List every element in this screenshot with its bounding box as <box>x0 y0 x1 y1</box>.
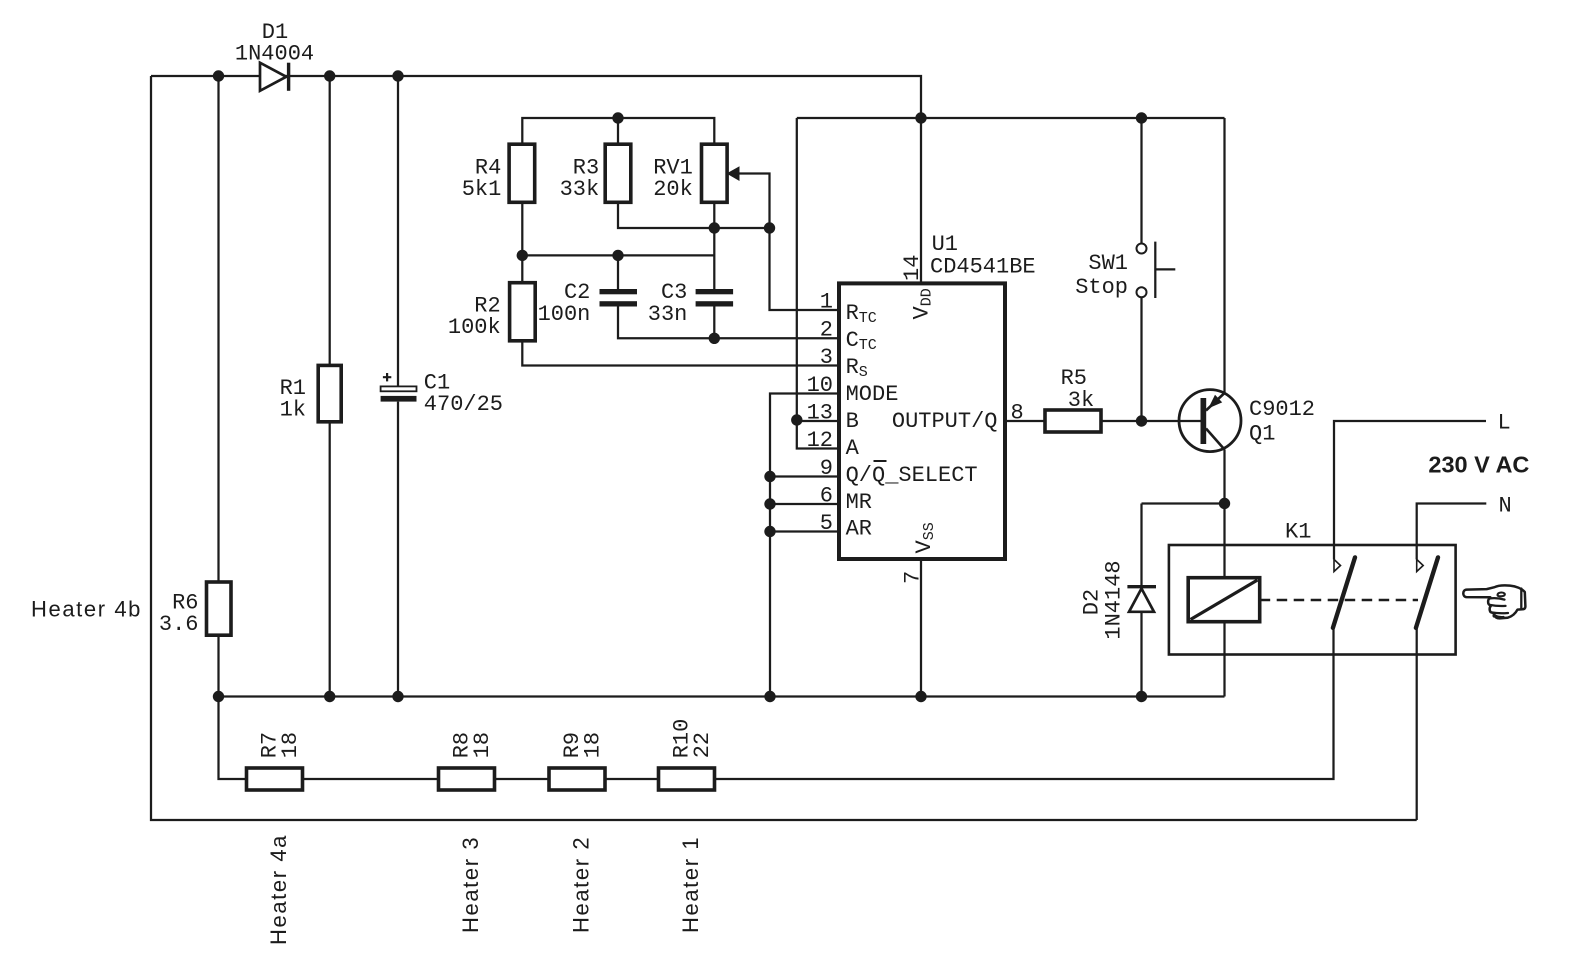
svg-text:Heater 3: Heater 3 <box>458 836 483 933</box>
wire outer left and bottom rail <box>151 76 1417 820</box>
svg-text:18: 18 <box>581 732 606 758</box>
wire R4 R3 RV1 top bus <box>522 118 714 144</box>
svg-text:14: 14 <box>900 255 925 281</box>
svg-text:B: B <box>846 409 859 434</box>
svg-text:3.6: 3.6 <box>159 612 199 637</box>
wire R4 bottom to R2 top <box>521 202 523 282</box>
node pins 9 6 5 junctions <box>764 471 775 482</box>
svg-text:U1: U1 <box>932 232 958 257</box>
node oscillator RC junctions <box>709 222 720 233</box>
svg-text:1N4004: 1N4004 <box>235 41 314 66</box>
svg-text:1k: 1k <box>280 398 306 423</box>
svg-text:6: 6 <box>820 484 833 509</box>
svg-text:230 V AC: 230 V AC <box>1428 452 1529 478</box>
svg-text:3: 3 <box>820 345 833 370</box>
capacitor C1 470/25 electrolytic <box>381 371 503 417</box>
wire contact 2 lower <box>1416 628 1418 820</box>
svg-text:OUTPUT/Q: OUTPUT/Q <box>892 409 998 434</box>
svg-text:3k: 3k <box>1068 388 1094 413</box>
resistor R5 3k <box>1045 366 1101 432</box>
wire R2 bottom to pin 3 RS <box>522 341 839 366</box>
resistor R1 1k <box>280 365 342 422</box>
svg-text:AR: AR <box>846 517 872 542</box>
wire D2 vertical <box>1140 504 1142 697</box>
capacitor C2 100n <box>538 280 637 327</box>
wire Q1 emitter vertical <box>1223 118 1225 393</box>
svg-text:A: A <box>846 436 860 461</box>
resistor R8 18 <box>439 732 496 790</box>
resistor R4 5k1 <box>462 144 535 202</box>
svg-text:MODE: MODE <box>846 382 899 407</box>
svg-text:33k: 33k <box>560 177 600 202</box>
node ground bus junctions <box>213 691 224 702</box>
resistor R3 33k <box>560 144 631 202</box>
wire pin 7 VSS down <box>920 559 922 697</box>
diode D2 1N4148 <box>1080 560 1157 639</box>
svg-text:10: 10 <box>807 373 833 398</box>
node pin13 B junction <box>791 414 802 425</box>
wire R6 bottom to bus and down to R7 <box>219 635 247 779</box>
node base junction <box>1136 415 1147 426</box>
node collector D2 junction <box>1219 498 1230 509</box>
wire N terminal to contact 2 <box>1417 504 1487 560</box>
wire SW1 top branch <box>1140 118 1142 244</box>
wire MODE pin 9 6 5 ground chain <box>770 394 839 697</box>
svg-text:470/25: 470/25 <box>424 392 503 417</box>
wire RV1 wiper to pin 1 RTC <box>727 174 840 311</box>
wire R5 to base junction to Q1 base <box>1101 420 1201 422</box>
svg-text:5k1: 5k1 <box>462 177 502 202</box>
pointing hand icon <box>1463 585 1525 618</box>
wire Q1 collector down through coil to ground bus <box>1223 450 1225 697</box>
svg-text:Heater 4b: Heater 4b <box>31 596 142 621</box>
svg-text:Q1: Q1 <box>1249 422 1275 447</box>
capacitor C3 33n <box>648 280 733 327</box>
IC U1 CD4541BE body <box>839 232 1036 559</box>
resistor R10 22 <box>659 719 716 790</box>
svg-text:9: 9 <box>820 456 833 481</box>
svg-text:100n: 100n <box>538 302 591 327</box>
resistor R2 100k <box>448 283 535 341</box>
relay actuation dashed link <box>1260 599 1418 602</box>
svg-text:2: 2 <box>820 318 833 343</box>
relay coil <box>1188 578 1260 622</box>
svg-text:Heater 1: Heater 1 <box>678 836 703 933</box>
relay contact 2 <box>1416 557 1438 628</box>
svg-text:100k: 100k <box>448 315 501 340</box>
node top rail junctions <box>213 70 224 81</box>
IC pin numbers <box>807 255 1024 584</box>
svg-text:C9012: C9012 <box>1249 397 1315 422</box>
wire L terminal to contact 1 <box>1334 421 1486 559</box>
relay contact 1 <box>1333 557 1355 628</box>
resistor R7 18 <box>247 732 304 790</box>
potentiometer RV1 20k <box>653 144 739 202</box>
svg-text:12: 12 <box>807 428 833 453</box>
svg-text:20k: 20k <box>653 177 693 202</box>
wire ground bottom bus y=696.5 <box>219 695 1225 697</box>
wire top supply rail <box>151 76 921 283</box>
wire SW1 bottom to base junction <box>1140 297 1142 421</box>
wire pin 8 output to R5 <box>1005 420 1045 422</box>
wire C2 C3 top bus <box>522 255 714 289</box>
wire C2 C3 bottom bus to pin 2 CTC <box>618 307 839 339</box>
transistor Q1 C9012 <box>1179 390 1315 452</box>
resistor R9 18 <box>549 732 606 790</box>
wire VDD right bus y=118 <box>797 117 1225 119</box>
svg-text:Heater 4a: Heater 4a <box>266 834 291 945</box>
wire heater chain segments <box>303 778 659 780</box>
diode D1 1N4004 <box>235 20 314 91</box>
svg-text:K1: K1 <box>1285 520 1311 545</box>
svg-text:22: 22 <box>690 732 715 758</box>
wire R1 branch <box>329 76 331 697</box>
IC pin labels inside <box>846 288 998 553</box>
svg-text:8: 8 <box>1011 401 1024 426</box>
svg-text:CD4541BE: CD4541BE <box>930 255 1036 280</box>
wire contact 1 lower to heater chain <box>715 628 1334 779</box>
svg-text:SW1: SW1 <box>1088 251 1128 276</box>
node VDD bus junctions <box>612 112 623 123</box>
svg-text:Q/Q_SELECT: Q/Q_SELECT <box>846 463 978 488</box>
svg-text:Heater 2: Heater 2 <box>569 836 594 933</box>
wire R3 bottom bus y=228 <box>618 202 770 228</box>
wire RV1 bottom down to C3 top <box>713 202 715 289</box>
svg-text:13: 13 <box>807 401 833 426</box>
svg-text:N: N <box>1499 494 1512 519</box>
svg-text:L: L <box>1498 410 1511 435</box>
svg-text:1: 1 <box>820 290 833 315</box>
svg-text:18: 18 <box>278 732 303 758</box>
wire C1 branch <box>397 76 399 697</box>
svg-text:1N4148: 1N4148 <box>1102 560 1127 639</box>
svg-text:5: 5 <box>820 511 833 536</box>
wire B A pins to VDD bus x=796.8 <box>797 118 839 449</box>
pushbutton SW1 Stop <box>1075 242 1175 300</box>
wire Heater4b branch x=218.5 <box>217 76 219 582</box>
svg-text:18: 18 <box>470 732 495 758</box>
wire D2 top link <box>1142 502 1225 504</box>
relay K1 box <box>1169 520 1456 655</box>
svg-text:33n: 33n <box>648 302 688 327</box>
svg-text:7: 7 <box>901 571 926 584</box>
svg-text:MR: MR <box>846 490 872 515</box>
resistor R6 3.6 Heater 4b <box>159 582 231 637</box>
svg-text:Stop: Stop <box>1075 275 1128 300</box>
